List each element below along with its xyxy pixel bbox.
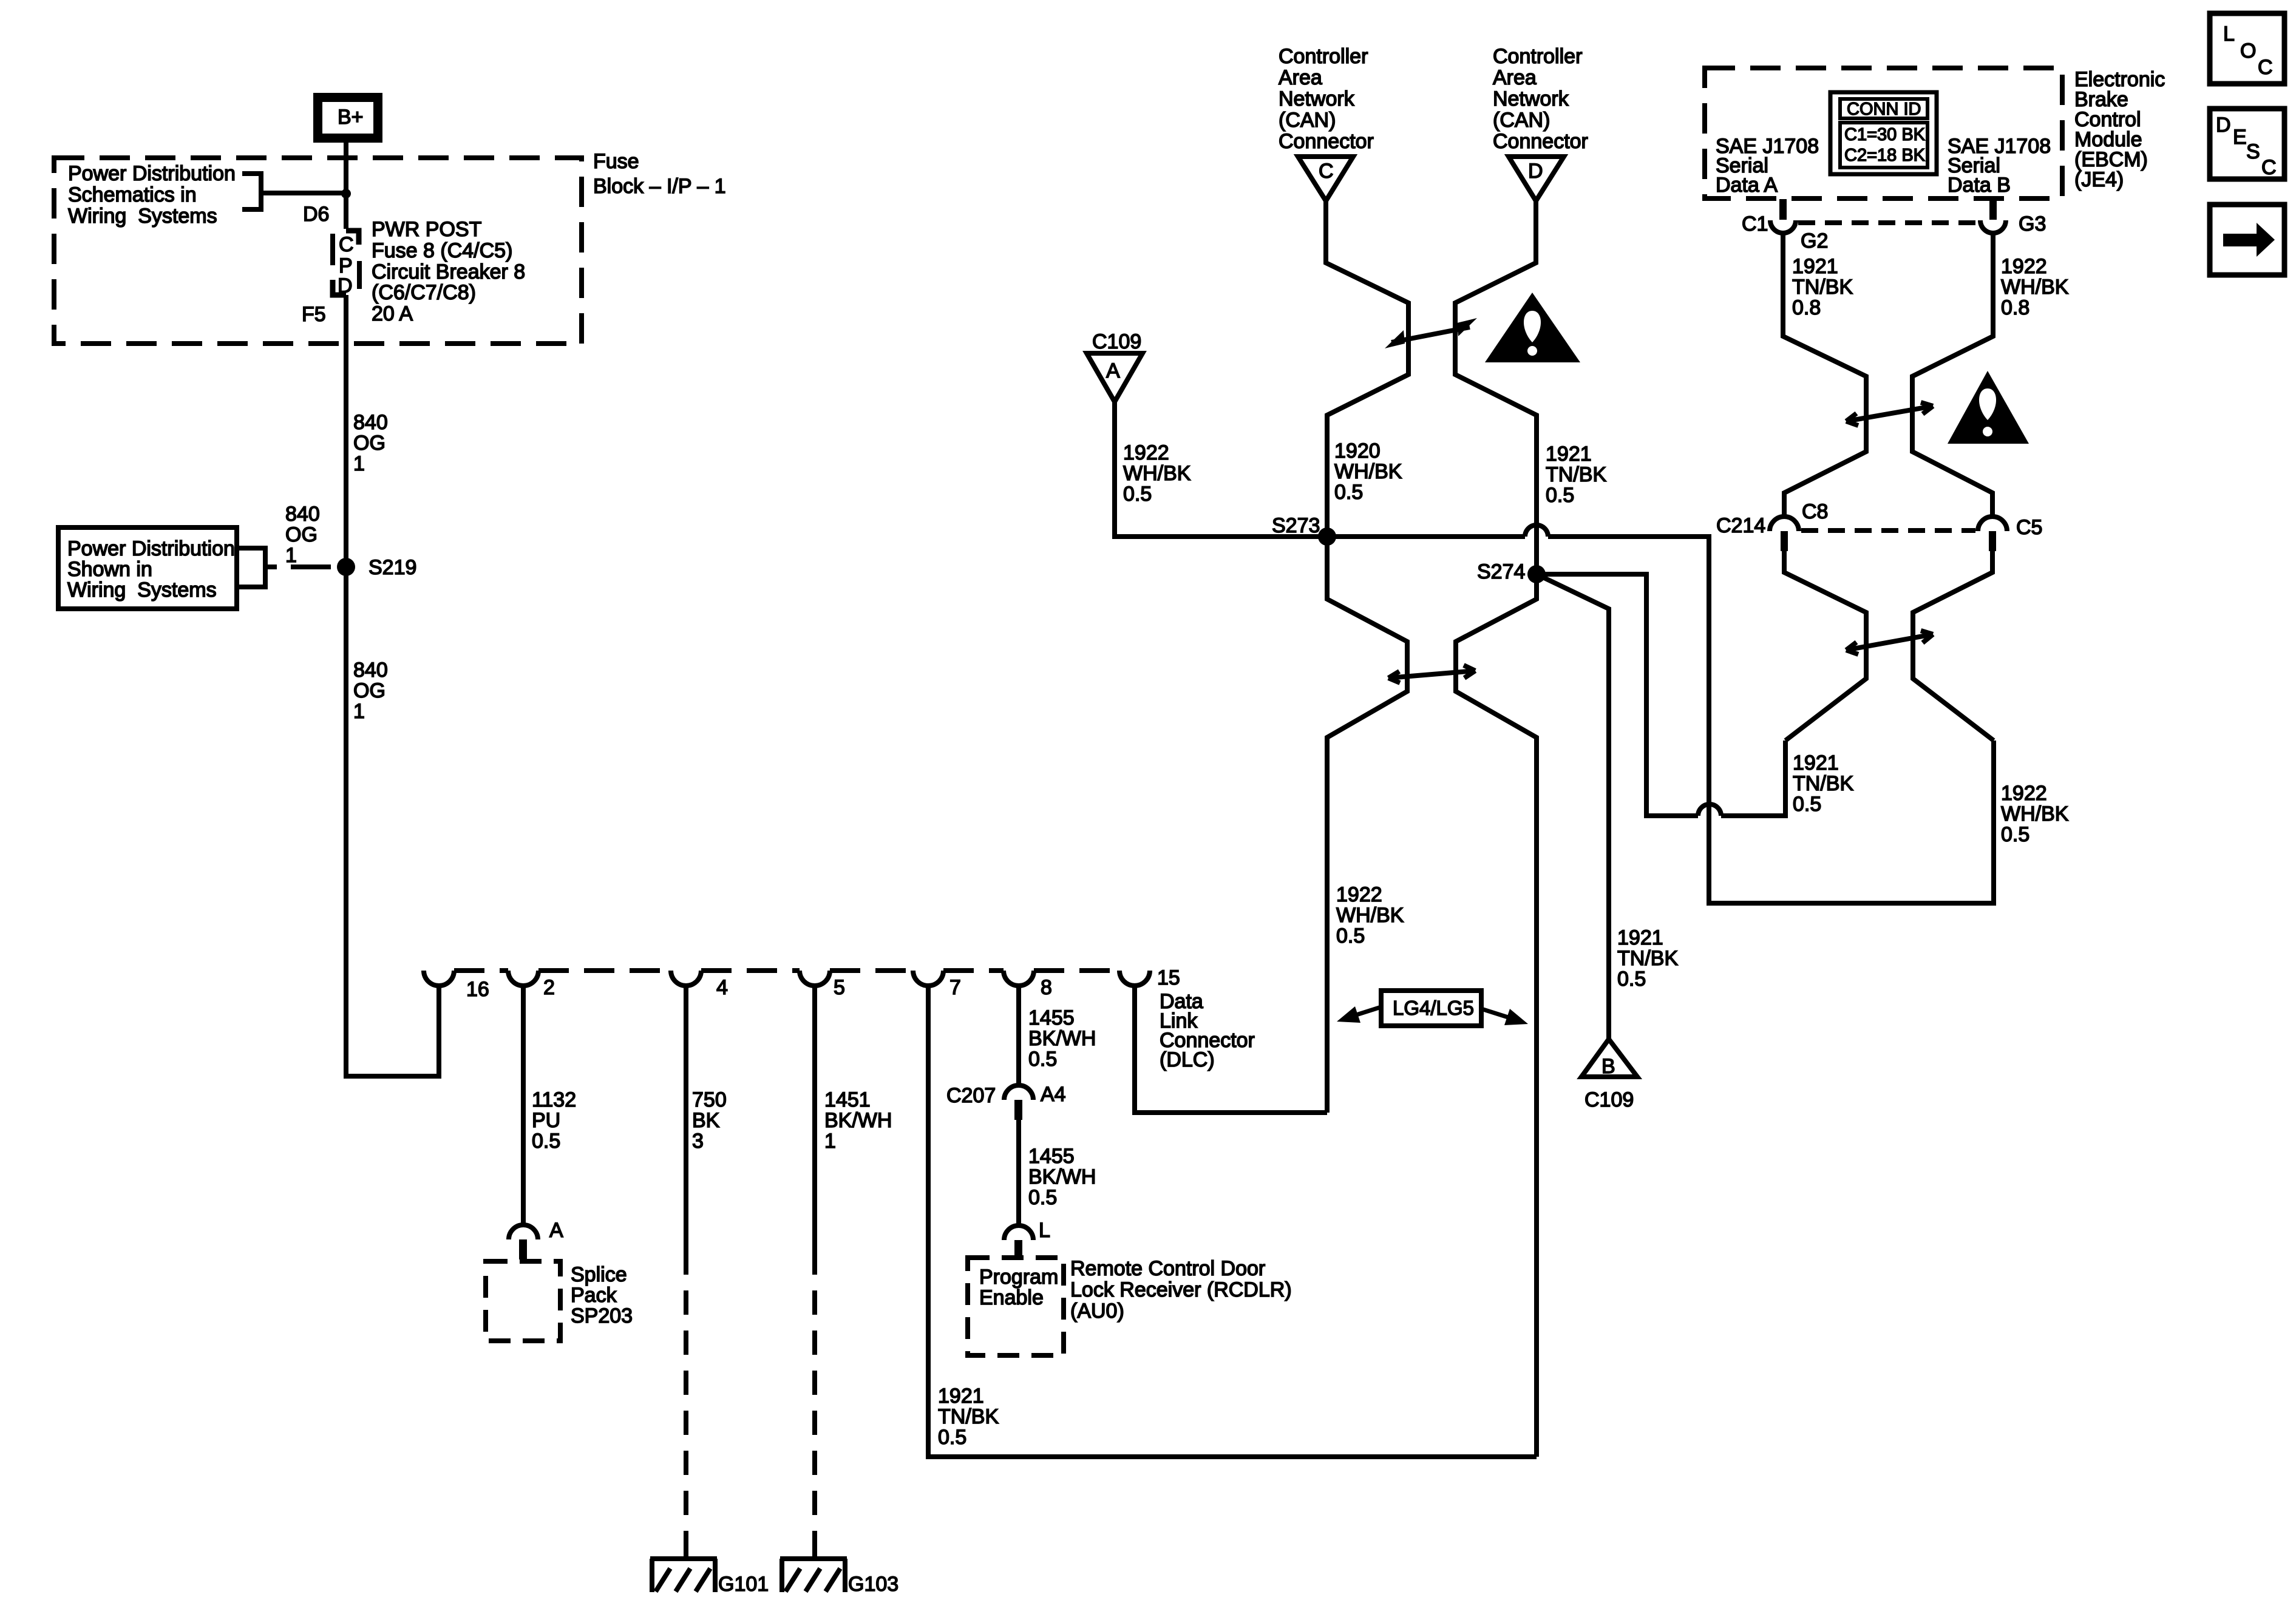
svg-text:1921: 1921 [1546,442,1592,466]
svg-text:C: C [1319,160,1334,183]
wire from A to S273 bus [1115,402,1525,537]
splice S274 [1527,565,1546,583]
wire label 840 OG 1 (at S219 left) [285,503,320,567]
svg-text:SP203: SP203 [571,1304,633,1327]
svg-text:A: A [1106,359,1120,382]
wire S273 down through crossover 2 [1327,537,1407,1113]
svg-text:(AU0): (AU0) [1070,1300,1124,1323]
svg-text:L: L [1039,1219,1050,1242]
svg-text:Area: Area [1493,66,1537,89]
wire pin 8 down [1016,986,1021,1085]
label SAE J1708 Serial Data B [1948,135,2051,197]
component label PWR POST Fuse 8 [372,218,525,325]
connector cup pin 5 [800,971,830,986]
svg-text:0.8: 0.8 [1792,296,1821,319]
warning triangle 1 [1485,293,1580,362]
off-page triangle C [1298,157,1353,201]
svg-text:C1: C1 [1742,212,1768,236]
label Data Link Connector (DLC) [1160,990,1255,1071]
svg-text:Program: Program [979,1266,1058,1289]
svg-text:Pack: Pack [571,1284,617,1307]
connector cup pin 2 [508,971,538,986]
svg-text:WH/BK: WH/BK [2001,802,2069,825]
svg-text:TN/BK: TN/BK [1617,947,1678,970]
svg-text:840: 840 [353,411,388,434]
fuse / circuit breaker 8 symbol (PWR POST) [333,231,359,297]
connector cup pin 16 [424,971,454,986]
svg-text:1922: 1922 [2001,255,2047,278]
svg-text:1922: 1922 [1336,883,1382,906]
CONN ID table [1830,92,1937,174]
wire S274 diagonal branch to C109 B [1537,574,1609,1039]
svg-text:1921: 1921 [938,1385,984,1408]
svg-text:Power Distribution: Power Distribution [67,537,235,560]
svg-text:1: 1 [285,544,297,567]
label Electronic Brake Control Module [2074,68,2165,191]
svg-text:S273: S273 [1272,514,1320,537]
svg-text:C1=30 BK: C1=30 BK [1844,125,1926,144]
svg-text:C: C [339,233,354,256]
svg-text:840: 840 [285,503,320,526]
svg-text:2: 2 [543,976,555,999]
svg-text:Wiring Systems: Wiring Systems [67,578,217,602]
svg-text:1: 1 [353,452,365,475]
wire continues to EBCM crossover [1721,741,1785,816]
svg-text:0.5: 0.5 [1028,1048,1057,1071]
EBCM pin C1 stub and cup [1779,199,1787,220]
wire pin 5 down [812,986,817,1250]
connector cup pin 4 [671,971,701,986]
svg-text:BK/WH: BK/WH [1028,1027,1096,1050]
inline connector C214: pin C8 cup and stub [1770,517,1799,531]
off-page triangle D [1509,157,1564,201]
splice S273 [1318,527,1336,546]
wire label 840 OG 1 (lower) [353,659,388,723]
svg-text:B+: B+ [338,106,364,129]
svg-text:C: C [2258,56,2273,79]
LOC box [2210,13,2284,84]
wire label 1451 BK/WH 1 [824,1088,892,1153]
svg-text:B: B [1601,1055,1615,1078]
RCDLR Program Enable dashed box [968,1258,1064,1355]
wire from C through crossover [1326,201,1408,537]
wire S274 right branch [1537,574,1698,816]
connector cup pin 15 [1119,971,1150,986]
svg-text:TN/BK: TN/BK [1792,276,1853,299]
svg-text:(CAN): (CAN) [1279,109,1336,132]
svg-text:0.5: 0.5 [1617,968,1646,991]
off-page triangle B [1581,1039,1637,1077]
svg-text:Schematics in: Schematics in [68,183,197,206]
svg-text:E: E [2233,126,2247,149]
svg-text:Data A: Data A [1716,174,1778,197]
svg-text:0.5: 0.5 [1123,483,1152,506]
svg-text:LG4/LG5: LG4/LG5 [1393,997,1474,1019]
svg-text:Fuse: Fuse [593,150,639,173]
bus hop over wire 1921 [1525,525,1548,537]
svg-text:TN/BK: TN/BK [1546,463,1606,486]
forward arrow box [2210,205,2284,275]
svg-text:L: L [2223,22,2235,46]
wire label 1455 BK/WH 0.5 (lower) [1028,1145,1096,1209]
svg-text:1921: 1921 [1792,255,1838,278]
wire from C5 through crossover 4 [1913,551,1994,741]
svg-text:Data B: Data B [1948,174,2011,197]
svg-text:1: 1 [353,700,365,723]
wire 1921 from C1 through crossover 3 [1783,235,1866,517]
bus continues right [1548,537,1994,903]
svg-text:G3: G3 [2019,212,2046,236]
ground G101 [650,1559,717,1592]
wire S274 down through crossover 2 [1456,574,1537,1457]
wire 840 OG down from fuse [346,295,439,1076]
svg-text:D6: D6 [303,203,329,226]
svg-text:D: D [2216,114,2231,137]
svg-text:(JE4): (JE4) [2074,168,2124,191]
dashed continuation wire to S219 [291,564,346,569]
svg-text:5: 5 [834,976,845,999]
svg-text:O: O [2240,39,2256,63]
svg-text:(DLC): (DLC) [1160,1048,1215,1071]
label Controller Area Network (CAN) Connector (right) [1493,45,1588,153]
wire from D through crossover [1455,201,1537,574]
svg-text:Enable: Enable [979,1286,1044,1309]
svg-text:0.5: 0.5 [1028,1186,1057,1209]
svg-text:Fuse 8 (C4/C5): Fuse 8 (C4/C5) [372,239,512,262]
svg-text:1922: 1922 [2001,782,2047,805]
svg-text:Power Distribution: Power Distribution [68,162,236,185]
bracket from note box [237,546,277,589]
svg-text:1455: 1455 [1028,1145,1075,1168]
twisted pair arrow 2 [1388,665,1475,683]
svg-text:Connector: Connector [1493,130,1588,153]
wire label 840 OG 1 (upper) [353,411,388,475]
svg-text:S219: S219 [369,556,416,579]
svg-text:1922: 1922 [1123,441,1169,464]
svg-text:C2=18 BK: C2=18 BK [1844,146,1926,165]
svg-text:0.5: 0.5 [1336,924,1365,947]
svg-text:16: 16 [466,978,489,1001]
svg-text:Controller: Controller [1279,45,1368,68]
svg-text:WH/BK: WH/BK [1336,904,1404,927]
wire label 750 BK 3 [692,1088,727,1153]
dashed connector line C1-G3 [1798,220,1978,225]
svg-text:7: 7 [949,976,961,999]
wire to RCDLR [1016,1120,1021,1225]
wire from C8 through crossover 4 [1784,551,1866,741]
wire label 1921 TN/BK 0.5 (to B) [1617,926,1678,991]
svg-text:C207: C207 [946,1084,996,1107]
svg-text:C: C [2261,156,2277,179]
svg-text:BK/WH: BK/WH [1028,1165,1096,1188]
svg-text:0.5: 0.5 [532,1130,560,1153]
svg-text:C8: C8 [1802,500,1828,523]
svg-text:1921: 1921 [1793,751,1839,775]
svg-text:BK/WH: BK/WH [824,1109,892,1132]
wire 1922 from G3 through crossover 3 [1912,235,1993,517]
svg-text:S: S [2246,140,2260,163]
connector cup pin 8 [1004,971,1034,986]
svg-text:Network: Network [1279,87,1355,110]
EBCM dashed box [1705,68,2062,198]
label Controller Area Network (CAN) Connector (left) [1279,45,1374,153]
wire label 1921 TN/BK 0.5 (bottom) [938,1385,999,1449]
DESC box [2210,109,2284,179]
svg-text:OG: OG [353,432,385,455]
svg-text:Circuit Breaker 8: Circuit Breaker 8 [372,260,525,283]
wire label 1922 WH/BK 0.8 [2001,255,2069,319]
svg-text:8: 8 [1041,976,1052,999]
svg-text:840: 840 [353,659,388,682]
connector cup L at RCDLR [1004,1225,1033,1240]
wire label 1922 WH/BK 0.5 (at A) [1123,441,1191,506]
svg-text:TN/BK: TN/BK [938,1405,999,1428]
wire label 1455 BK/WH 0.5 (upper) [1028,1006,1096,1071]
wire label 1921 TN/BK 0.5 (right) [1793,751,1853,816]
wire pin 2 down [521,986,526,1225]
svg-text:0.5: 0.5 [1334,481,1363,504]
ground G103 [780,1559,847,1592]
connector cup pin 7 [913,971,943,986]
wire pin 4 down [684,986,688,1250]
svg-text:1920: 1920 [1334,439,1381,463]
bracket from note to wire [242,171,344,212]
svg-text:1132: 1132 [532,1088,576,1111]
svg-text:G103: G103 [848,1573,898,1596]
svg-text:Wiring Systems: Wiring Systems [68,205,217,228]
twisted pair arrow 3 [1846,402,1933,425]
svg-text:C109: C109 [1092,330,1141,353]
svg-text:Network: Network [1493,87,1569,110]
svg-text:C5: C5 [2016,516,2042,539]
inline connector C207 pin A4 [1004,1085,1033,1100]
svg-text:4: 4 [716,976,728,999]
dashed connector line C8-C5 [1801,528,1975,533]
svg-text:Controller: Controller [1493,45,1582,68]
svg-text:C214: C214 [1716,514,1765,537]
svg-text:(C6/C7/C8): (C6/C7/C8) [372,281,476,304]
svg-text:15: 15 [1157,966,1180,989]
EBCM pin G3 stub and cup [1989,199,1997,220]
wire label 1921 TN/BK 0.5 [1546,442,1606,507]
svg-text:G101: G101 [718,1573,769,1596]
svg-text:OG: OG [353,679,385,702]
svg-text:D: D [1528,160,1543,183]
svg-text:0.5: 0.5 [938,1426,966,1449]
svg-text:0.8: 0.8 [2001,296,2029,319]
svg-text:Area: Area [1279,66,1322,89]
svg-text:1455: 1455 [1028,1006,1075,1029]
warning triangle 2 [1948,371,2029,444]
svg-text:G2: G2 [1801,229,1828,253]
svg-text:WH/BK: WH/BK [2001,276,2069,299]
svg-text:0.5: 0.5 [1546,484,1574,507]
data link connector dashed row [454,968,508,973]
svg-text:Splice: Splice [571,1263,627,1286]
svg-text:A: A [549,1219,563,1242]
svg-text:CONN ID: CONN ID [1847,100,1921,119]
svg-text:WH/BK: WH/BK [1334,460,1402,483]
svg-text:750: 750 [692,1088,727,1111]
svg-text:BK: BK [692,1109,720,1132]
svg-text:1: 1 [824,1130,836,1153]
wire label 1922 WH/BK 0.5 (to DLC 15) [1336,883,1404,947]
svg-text:0.5: 0.5 [2001,823,2029,846]
svg-text:1451: 1451 [824,1088,871,1111]
wire pin 15 down and right [1135,986,1327,1113]
svg-text:PWR POST: PWR POST [372,218,481,241]
note box Power Distribution Shown in Wiring Systems [58,527,237,609]
svg-text:Shown in: Shown in [67,558,152,581]
note Power Distribution Schematics in Wiring Systems [68,162,236,228]
hop over 1922 vertical [1698,804,1721,816]
wire label 1921 TN/BK 0.8 [1792,255,1853,319]
svg-text:OG: OG [285,523,318,546]
wire label 1922 WH/BK 0.5 (right) [2001,782,2069,846]
splice S219 [337,558,355,576]
svg-text:A4: A4 [1041,1083,1066,1106]
svg-text:20 A: 20 A [372,302,413,325]
label Remote Control Door Lock Receiver [1070,1257,1292,1323]
wire label 1132 PU 0.5 [532,1088,576,1153]
svg-text:C109: C109 [1584,1088,1634,1111]
LG4/LG5 tag box with arrows [1337,991,1528,1026]
wire label 1920 WH/BK 0.5 [1334,439,1402,504]
wire pin 7 down and across [928,986,1537,1457]
svg-text:Block – I/P – 1: Block – I/P – 1 [593,175,726,198]
fuse block dashed box [54,158,582,344]
twisted pair arrow 4 [1846,631,1933,654]
node junction at D6 [341,189,351,198]
connector cup A at splice pack [509,1225,538,1239]
label Fuse Block - I/P - 1 [593,150,726,198]
inline connector pin C5 cup and stub [1978,517,2007,531]
svg-text:WH/BK: WH/BK [1123,462,1191,485]
svg-text:S274: S274 [1477,560,1525,583]
svg-text:TN/BK: TN/BK [1793,772,1853,795]
svg-text:1921: 1921 [1617,926,1663,949]
svg-text:Lock Receiver (RCDLR): Lock Receiver (RCDLR) [1070,1278,1292,1301]
twisted pair arrow 1 [1385,318,1477,348]
svg-text:(CAN): (CAN) [1493,109,1550,132]
wire B+ down [344,143,348,229]
off-page triangle A [1087,353,1143,402]
svg-text:3: 3 [692,1130,704,1153]
svg-text:Connector: Connector [1279,130,1374,153]
svg-text:0.5: 0.5 [1793,793,1821,816]
splice pack SP203 dashed box [486,1261,560,1341]
svg-text:PU: PU [532,1109,560,1132]
label SAE J1708 Serial Data A [1716,135,1819,197]
svg-text:F5: F5 [302,303,326,326]
battery feed B+ symbol [313,93,382,143]
svg-text:Remote Control Door: Remote Control Door [1070,1257,1265,1280]
